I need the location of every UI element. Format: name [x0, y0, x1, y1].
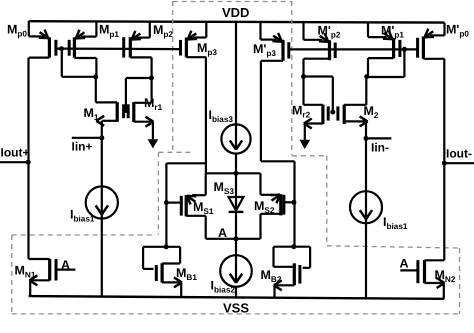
transistor MB2	[274, 247, 311, 298]
transistor MS2	[261, 194, 284, 215]
node Mp2 drain junction	[149, 76, 154, 81]
label Ibias1 right	[383, 215, 408, 231]
node MB1 drain junction	[164, 244, 169, 249]
wire MS2 gate lead	[284, 201, 295, 203]
node MS2 gate junction	[291, 200, 296, 205]
node label A at MN1	[61, 258, 70, 272]
label M'p0	[446, 23, 469, 39]
wire M1 source to Ibias1	[101, 138, 103, 297]
wire M'p2 drain down	[302, 59, 304, 105]
wire box top edge	[206, 172, 261, 174]
label Mp2	[153, 23, 173, 39]
label Mp1	[99, 23, 119, 39]
wire Ibias2 to VSS	[235, 287, 237, 298]
dashed box center top-right edge	[291, 1, 293, 155]
node Ibias3 bottom junction	[234, 171, 239, 176]
wire box left side lower	[205, 216, 207, 239]
svg-text:VSS: VSS	[223, 300, 249, 315]
svg-text:Iin+: Iin+	[72, 140, 93, 154]
svg-text:Iin-: Iin-	[371, 141, 389, 155]
wire node A to Ibias2	[235, 239, 237, 282]
wire MS1 gate lead	[166, 202, 181, 204]
dashed box center top-left edge	[172, 1, 174, 151]
node label A at MN2	[400, 256, 409, 270]
node Iout- terminal	[442, 161, 447, 166]
wire branch to MB1	[166, 163, 206, 247]
dashed box center top edge	[173, 1, 292, 3]
label M'p1	[381, 24, 404, 40]
net label VSS	[223, 300, 249, 315]
label Iin-	[371, 141, 389, 155]
dashed box center right jog	[292, 155, 327, 157]
label Mr1	[144, 96, 163, 112]
svg-text:VDD: VDD	[222, 5, 249, 20]
wire MN1 gate lead to node A	[56, 269, 75, 271]
wire Ibias3 to translinear box	[235, 153, 237, 173]
wire Mp1 drain node to M1 drain	[96, 77, 117, 103]
wire Iout+ branch	[27, 58, 29, 259]
svg-text:Iout+: Iout+	[1, 146, 30, 160]
wire M'p1 drain node to M2 drain	[344, 77, 366, 105]
dashed box center left jog	[158, 151, 190, 153]
transistor Mr1	[128, 102, 153, 139]
current source Ibias2	[220, 255, 252, 287]
node A junction	[234, 236, 239, 241]
wire M2 source to Ibias1 right	[365, 138, 367, 298]
transistor MB1	[143, 247, 182, 297]
node M1 Mr1 gate junction	[123, 108, 128, 113]
label MS3	[214, 180, 235, 196]
wire MN2 gate lead to node A	[400, 269, 418, 271]
dashed box right right edge	[459, 248, 461, 314]
label Iout+	[1, 146, 30, 160]
wire Iout- lead	[444, 162, 474, 164]
svg-text:A: A	[400, 256, 409, 270]
net label VDD	[222, 5, 249, 20]
label Ibias2	[211, 279, 236, 295]
transistor M'p2	[304, 22, 336, 60]
wire Mp2 drain node to M1 Mr1 gates	[126, 78, 151, 111]
label Ibias3	[209, 108, 234, 124]
dashed box left top edge	[12, 234, 156, 236]
label M'p3	[253, 42, 276, 58]
node Iout+ terminal	[26, 160, 31, 165]
label Ibias1 left	[70, 208, 95, 224]
transistor M'p1	[368, 22, 400, 58]
svg-text:Iout-: Iout-	[446, 147, 472, 161]
label MS2	[254, 199, 275, 215]
node M'p2 drain junction	[301, 74, 306, 79]
wire Iin- lead	[366, 137, 391, 139]
label M1	[84, 106, 99, 122]
wire branch to MS2 gate and MB2	[261, 161, 295, 246]
label Iout-	[446, 147, 472, 161]
label M'p2	[318, 24, 341, 40]
wire P gate line right	[289, 48, 418, 50]
node P gate left junction	[59, 46, 64, 51]
node Mp1 drain junction	[93, 74, 98, 79]
wire Iin+ lead	[72, 137, 102, 139]
node MS1 gate junction	[164, 200, 169, 205]
ground arrow under Mr1	[148, 139, 159, 148]
transistor Mp1	[69, 21, 96, 58]
transistor Mr2	[304, 105, 329, 140]
wire M'p2 drain node to M2 Mr2 gates	[304, 77, 333, 113]
wire M'p1 drain down	[367, 58, 369, 77]
node P gate right junction	[402, 47, 407, 52]
node label A center	[218, 226, 227, 240]
dashed box left left edge	[11, 235, 13, 314]
transistor Mp0	[29, 21, 56, 58]
transistor M'p0	[418, 23, 445, 59]
label MN1	[15, 264, 36, 280]
wire M'p3 drain down	[260, 61, 262, 162]
dashed box center lower-left edge	[157, 152, 159, 235]
transistor MN1	[29, 259, 57, 296]
wire VSS rail	[29, 296, 445, 299]
transistor M2	[338, 105, 368, 139]
wire gate of Mp0-Mp1 down to Mp1 drain node	[62, 49, 96, 77]
wire Mp1 drain down	[95, 58, 97, 77]
wire P gate line left	[56, 47, 181, 50]
label M2	[364, 104, 379, 120]
svg-text:A: A	[218, 226, 227, 240]
node Iin+ junction	[99, 135, 104, 140]
dashed box center lower-right edge	[326, 156, 328, 246]
wire Mp2 drain down	[151, 57, 153, 102]
node Iin- junction	[364, 136, 369, 141]
wire Iout+ lead	[0, 161, 28, 163]
wire VDD to Ibias3	[235, 22, 237, 150]
label Mp0	[7, 23, 27, 39]
label Mr2	[292, 104, 311, 120]
label MN2	[435, 268, 456, 284]
wire node A line	[206, 238, 261, 240]
transistor Mp3	[181, 21, 207, 57]
node M2 Mr2 gate junction	[330, 110, 335, 115]
wire box right side lower	[259, 214, 261, 239]
transistor MS1	[181, 173, 205, 216]
ground arrow under Mr2	[299, 140, 310, 149]
wire gate right down to M'p1 drain node	[367, 49, 405, 77]
label MB1	[176, 266, 197, 282]
transistor M1	[96, 102, 123, 138]
transistor M'p3	[261, 22, 289, 61]
label MB2	[261, 268, 282, 284]
current source Ibias3	[221, 124, 250, 153]
label Mp3	[197, 41, 217, 57]
label Iin+	[72, 140, 93, 154]
dashed box bottom edge	[12, 313, 460, 315]
current source Ibias1 left	[86, 186, 118, 218]
wire Mp3 drain down to box	[205, 57, 207, 173]
dashed box right top edge	[327, 246, 460, 248]
label MS1	[193, 200, 214, 216]
current source Ibias1 right	[350, 191, 382, 223]
wire box right side upper	[259, 173, 261, 195]
node MB2 drain junction	[291, 244, 296, 249]
wire Iout- branch	[443, 59, 445, 260]
diode MS3 diode-connected	[229, 173, 244, 239]
transistor MN2	[418, 260, 445, 299]
node M'p1 drain junction	[364, 74, 369, 79]
transistor Mp2	[124, 21, 152, 57]
svg-text:A: A	[61, 258, 70, 272]
wire VDD rail	[29, 21, 445, 22]
